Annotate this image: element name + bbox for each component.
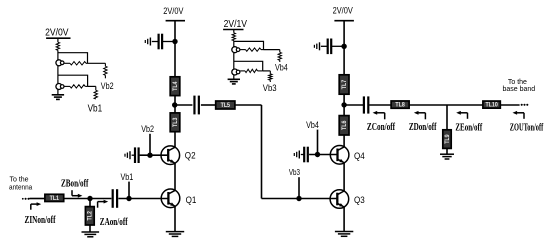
- svg-text:ZINon/off: ZINon/off: [25, 215, 57, 227]
- svg-text:antenna: antenna: [9, 184, 33, 191]
- svg-text:To the: To the: [508, 79, 527, 86]
- svg-text:To the: To the: [10, 176, 29, 183]
- svg-text:TL3: TL3: [172, 117, 179, 127]
- svg-text:Vb1: Vb1: [88, 103, 103, 114]
- svg-text:TL6: TL6: [342, 120, 349, 130]
- svg-text:Q1: Q1: [186, 194, 197, 205]
- svg-text:TL4: TL4: [172, 81, 179, 91]
- svg-text:ZBon/off: ZBon/off: [61, 178, 89, 190]
- svg-text:2V/0V: 2V/0V: [333, 5, 353, 16]
- svg-text:Vb2: Vb2: [101, 81, 114, 91]
- svg-text:Q3: Q3: [354, 194, 365, 205]
- svg-text:Vb4: Vb4: [275, 63, 288, 73]
- svg-text:Q4: Q4: [354, 150, 365, 161]
- svg-text:ZOUTon/off: ZOUTon/off: [510, 121, 544, 133]
- svg-text:2V/0V: 2V/0V: [163, 5, 183, 16]
- svg-text:ZAon/off: ZAon/off: [100, 216, 128, 228]
- svg-text:2V/0V: 2V/0V: [45, 27, 69, 39]
- svg-text:TL9: TL9: [444, 134, 451, 144]
- svg-text:base band: base band: [502, 86, 535, 93]
- svg-text:ZDon/off: ZDon/off: [409, 122, 437, 134]
- svg-text:Vb3: Vb3: [263, 82, 277, 93]
- svg-text:TL2: TL2: [87, 211, 94, 221]
- svg-text:Vb2: Vb2: [141, 124, 154, 134]
- svg-text:2V/1V: 2V/1V: [224, 18, 248, 30]
- svg-text:ZEon/off: ZEon/off: [455, 121, 482, 133]
- svg-text:Vb4: Vb4: [306, 120, 319, 130]
- svg-text:Q2: Q2: [185, 150, 196, 161]
- svg-text:Vb3: Vb3: [289, 169, 300, 178]
- svg-text:TL10: TL10: [485, 102, 498, 109]
- svg-text:TL8: TL8: [395, 102, 405, 109]
- svg-text:TL1: TL1: [50, 195, 60, 202]
- svg-text:ZCon/off: ZCon/off: [367, 122, 396, 134]
- svg-text:Vb1: Vb1: [121, 172, 134, 182]
- svg-text:TL7: TL7: [342, 79, 349, 89]
- svg-text:TL5: TL5: [221, 102, 231, 109]
